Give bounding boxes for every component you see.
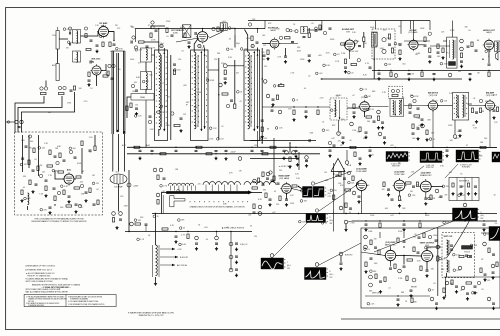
svg-text:.02: .02 bbox=[433, 283, 436, 285]
tube V8 quadrature bbox=[360, 102, 370, 112]
ground g60 bbox=[459, 134, 461, 136]
test point M20 bbox=[448, 73, 452, 77]
T8 coil 1 bbox=[456, 95, 457, 117]
bar arrow left bbox=[167, 191, 169, 193]
svg-text:.05: .05 bbox=[226, 227, 229, 229]
tube V10 AGC bbox=[64, 174, 74, 184]
ground g9 bbox=[267, 57, 269, 59]
wire riser 3 bbox=[234, 60, 236, 104]
wire vol bbox=[373, 47, 375, 79]
test point M13 bbox=[295, 30, 298, 33]
ground g56 bbox=[399, 57, 401, 59]
capacitor C45 bbox=[353, 111, 356, 113]
svg-text:270: 270 bbox=[117, 28, 120, 30]
resistor R30 bbox=[341, 43, 346, 45]
test point M45 bbox=[435, 189, 439, 193]
IF transformer T2 shield bbox=[191, 50, 209, 141]
wire ratio c bbox=[469, 105, 486, 107]
capacitor C121 bbox=[18, 126, 21, 128]
waveform photo E1 bbox=[489, 227, 500, 241]
dot j2 bbox=[218, 94, 219, 95]
T1 slug top arrow bbox=[163, 52, 165, 54]
capacitor C21 bbox=[171, 34, 174, 36]
svg-text:5%: 5% bbox=[495, 223, 498, 225]
wire t7 top bbox=[452, 21, 454, 38]
T3 slug top arrows bbox=[253, 51, 255, 53]
contrast pot bbox=[373, 32, 377, 46]
circle B+ tag bbox=[127, 183, 131, 187]
wire tuner drop a bbox=[57, 49, 59, 64]
resistor R28 bbox=[308, 33, 310, 38]
T3 slug arrow 2 bbox=[256, 126, 258, 129]
wire vert box drop bbox=[390, 261, 392, 267]
svg-text:.047: .047 bbox=[370, 155, 374, 157]
wire t4b bbox=[245, 30, 248, 48]
svg-text:.047: .047 bbox=[236, 73, 240, 75]
wire m44 link bbox=[348, 221, 352, 222]
ground g52 bbox=[443, 296, 445, 298]
vert section box bbox=[361, 228, 500, 308]
svg-text:.001: .001 bbox=[56, 170, 60, 172]
wire crt top bbox=[155, 214, 157, 246]
ground g2 bbox=[88, 83, 90, 85]
wire step 2 bbox=[18, 96, 62, 133]
test point M22 bbox=[413, 99, 416, 102]
resistor R41b bbox=[460, 53, 462, 58]
svg-text:.05: .05 bbox=[481, 289, 484, 291]
svg-text:.01: .01 bbox=[200, 47, 203, 49]
bus extra parts2 bbox=[261, 149, 264, 151]
capacitor C77 bbox=[235, 242, 238, 244]
wire riser 2 bbox=[218, 58, 220, 140]
quad coil 2 bbox=[335, 100, 336, 117]
wire v4 plate bbox=[203, 45, 205, 48]
T3 coil bbox=[248, 52, 250, 129]
wire S2 diag bbox=[319, 243, 361, 265]
wire conv 2 bbox=[151, 26, 165, 29]
resistor R82 bbox=[292, 185, 297, 187]
resistor R22 bbox=[166, 28, 168, 33]
svg-text:.005: .005 bbox=[384, 208, 388, 210]
capacitor C6 bbox=[88, 79, 91, 81]
waveform photo B1b bbox=[313, 187, 324, 198]
test point M11 bbox=[279, 36, 282, 39]
wire b+ top line bbox=[248, 20, 430, 22]
svg-text:6AQ5: 6AQ5 bbox=[486, 31, 492, 34]
yoke parts row bbox=[459, 255, 464, 257]
capacitor C98 bbox=[389, 267, 392, 269]
svg-text:MIX-OSC: MIX-OSC bbox=[92, 59, 101, 61]
vert extra wire bbox=[403, 232, 405, 238]
small cluster circle a bbox=[285, 151, 289, 155]
dot j1 bbox=[113, 40, 114, 41]
W1 scale marks bbox=[409, 152, 411, 154]
svg-text:330: 330 bbox=[149, 75, 152, 77]
ground g33 bbox=[175, 240, 177, 242]
circle pot P1 bbox=[382, 38, 386, 42]
S1 test circle bbox=[270, 254, 274, 258]
svg-text:470K: 470K bbox=[165, 125, 170, 127]
capacitor C13 bbox=[139, 149, 142, 151]
terminal circle t1 bbox=[15, 120, 18, 123]
ground g42 bbox=[399, 204, 401, 206]
wire vo c bbox=[404, 255, 422, 258]
test point M41 bbox=[269, 171, 272, 174]
resistor R20 bbox=[139, 41, 145, 43]
capacitor C81 bbox=[269, 198, 272, 200]
capacitor C57 bbox=[369, 149, 372, 151]
resistor R64 bbox=[63, 190, 65, 195]
resistor R114 bbox=[354, 152, 356, 157]
svg-text:AFC PULSE: AFC PULSE bbox=[177, 264, 188, 267]
circle M32 bbox=[159, 168, 163, 172]
tube V16 AF AMP bbox=[409, 40, 418, 49]
resistor R95 bbox=[378, 250, 380, 255]
T1 dots right bbox=[166, 57, 167, 58]
test point M52 bbox=[487, 297, 491, 301]
svg-text:.02: .02 bbox=[308, 75, 311, 77]
svg-text:560: 560 bbox=[450, 140, 453, 142]
ground g26 bbox=[369, 154, 371, 156]
svg-text:330: 330 bbox=[431, 268, 434, 270]
wire quad b bbox=[364, 111, 366, 117]
tube V1 RF AMP 6BC5 bbox=[99, 27, 109, 37]
wire takeoff 1 bbox=[250, 140, 316, 142]
waveform photo W1 bbox=[386, 152, 408, 162]
svg-text:.005: .005 bbox=[390, 145, 394, 147]
svg-text:1M: 1M bbox=[410, 191, 413, 193]
svg-text:470K: 470K bbox=[398, 231, 403, 233]
CRT socket coil bbox=[156, 245, 158, 276]
capacitor C96 bbox=[370, 257, 373, 259]
transformer box T5 bbox=[301, 27, 308, 34]
capacitor C34 bbox=[388, 43, 391, 45]
resistor R78 bbox=[262, 172, 264, 177]
circle M58 bbox=[305, 156, 309, 160]
T8 slug bbox=[458, 95, 460, 117]
wire sync h bbox=[431, 186, 443, 188]
wire crt link bbox=[128, 213, 130, 215]
svg-text:2W: 2W bbox=[115, 25, 118, 27]
capacitor C80 bbox=[277, 182, 280, 184]
svg-text:33: 33 bbox=[250, 226, 252, 228]
svg-text:220: 220 bbox=[386, 38, 389, 40]
capacitor C116 bbox=[359, 157, 362, 159]
S1 scale marks bbox=[284, 259, 286, 261]
ground g57 bbox=[442, 56, 444, 58]
resistor R69 bbox=[94, 146, 96, 151]
svg-text:.05: .05 bbox=[488, 51, 491, 53]
svg-text:.01: .01 bbox=[475, 292, 478, 294]
svg-text:+140V: +140V bbox=[133, 186, 139, 188]
svg-text:.047: .047 bbox=[461, 195, 465, 197]
test point M49 bbox=[483, 242, 487, 246]
T3 slug line 1 bbox=[253, 52, 255, 129]
test point M56 bbox=[345, 161, 349, 165]
ground g25 bbox=[329, 154, 331, 156]
fine tuning capacitor pair b bbox=[58, 86, 61, 89]
wire sound row link bbox=[279, 43, 298, 45]
svg-text:100K: 100K bbox=[297, 50, 302, 52]
wire takeoff riser a bbox=[273, 138, 275, 183]
svg-text:OTHERWISE SPECIFIED.: OTHERWISE SPECIFIED. bbox=[28, 305, 45, 307]
capacitor C25 bbox=[256, 41, 259, 43]
svg-text:.01: .01 bbox=[388, 287, 391, 289]
svg-text:(60~): (60~) bbox=[330, 274, 334, 276]
wire s2 bbox=[285, 48, 287, 56]
wire bus drop v5 bbox=[257, 29, 259, 33]
svg-text:470K: 470K bbox=[210, 80, 215, 82]
ground g24 bbox=[493, 116, 495, 118]
svg-text:220: 220 bbox=[434, 101, 437, 103]
capacitor C9 bbox=[173, 63, 176, 65]
svg-text:220: 220 bbox=[338, 140, 341, 142]
svg-text:3 (60~) 1V: 3 (60~) 1V bbox=[240, 244, 248, 246]
svg-text:10pf: 10pf bbox=[160, 43, 164, 45]
resistor R8 bbox=[41, 92, 47, 94]
capacitor C50 bbox=[417, 107, 420, 109]
svg-text:2W: 2W bbox=[183, 114, 186, 116]
svg-text:270K: 270K bbox=[67, 103, 72, 105]
circle M35 bbox=[130, 222, 134, 226]
svg-text:150: 150 bbox=[254, 145, 257, 147]
svg-text:RECEIVER MAKES IT POSSIBLE TO: RECEIVER MAKES IT POSSIBLE TO BRING YOU … bbox=[31, 220, 87, 223]
svg-text:1M: 1M bbox=[324, 172, 327, 174]
resistor R3 bbox=[102, 42, 104, 47]
test point M30 bbox=[119, 212, 123, 216]
svg-text:1M: 1M bbox=[368, 96, 371, 98]
svg-text:★ WAVEFORMS OBTAINED WITH WIDE: ★ WAVEFORMS OBTAINED WITH WIDE BAND SCOP… bbox=[128, 312, 175, 315]
ground g44 bbox=[365, 228, 367, 230]
svg-text:.05: .05 bbox=[22, 187, 25, 189]
resistor R65 bbox=[74, 187, 80, 189]
resistor R27 bbox=[267, 50, 269, 55]
wire v11 k bbox=[286, 193, 288, 199]
svg-text:PHASE DET: PHASE DET bbox=[420, 174, 433, 177]
svg-text:2W: 2W bbox=[39, 165, 42, 167]
resistor R25 bbox=[251, 36, 253, 41]
capacitor C28 bbox=[303, 36, 306, 38]
ground g63 bbox=[261, 135, 263, 137]
capacitor C67 bbox=[89, 149, 92, 151]
parts below grid boxes bbox=[131, 84, 134, 87]
svg-text:2W: 2W bbox=[374, 239, 377, 241]
wire quad link bbox=[369, 106, 388, 108]
svg-text:72Ω: 72Ω bbox=[52, 35, 56, 37]
test point M21 bbox=[350, 122, 354, 126]
test point M4 bbox=[171, 112, 174, 115]
T2 id circle bbox=[198, 44, 201, 47]
wire if c bbox=[127, 97, 131, 118]
capacitor C15 bbox=[215, 150, 218, 152]
vert extra parts2 bbox=[466, 282, 472, 284]
wire vo d bbox=[426, 262, 428, 271]
test point M54 bbox=[323, 31, 326, 34]
capacitor C55 bbox=[493, 109, 496, 111]
wire t4 bbox=[234, 35, 236, 48]
wire disc drop bbox=[349, 50, 351, 59]
lower rule line bbox=[341, 318, 500, 320]
wire switch down bbox=[162, 192, 167, 213]
switch contact dots bbox=[190, 201, 191, 202]
resistor R13 bbox=[174, 124, 180, 126]
capacitor C60 bbox=[21, 157, 24, 159]
svg-text:.001: .001 bbox=[74, 59, 78, 61]
waveform photo B1a bbox=[303, 187, 313, 198]
wire vo a bbox=[396, 255, 404, 257]
svg-text:AGC: AGC bbox=[67, 169, 72, 172]
capacitor C78 bbox=[235, 255, 238, 257]
svg-text:33: 33 bbox=[216, 244, 218, 246]
resistor R102 bbox=[420, 266, 422, 271]
resistor yoke R104 bbox=[437, 256, 439, 261]
wire quad out bbox=[346, 150, 348, 160]
ground g13 bbox=[429, 60, 431, 62]
wire tp column bbox=[230, 232, 232, 271]
svg-text:330: 330 bbox=[458, 71, 461, 73]
capacitor C110 bbox=[271, 109, 274, 111]
svg-text:220: 220 bbox=[264, 66, 267, 68]
ground g65 bbox=[359, 162, 361, 164]
ground g46 bbox=[483, 228, 485, 230]
sync cluster cap 1 bbox=[343, 177, 346, 179]
wire crt neck 3 bbox=[123, 134, 125, 172]
CRT pin arrow 1 bbox=[160, 248, 175, 250]
wire box vert 2 bbox=[28, 135, 30, 168]
audio chain circles bbox=[460, 39, 464, 43]
ground g61 bbox=[293, 118, 295, 120]
T2 coil bbox=[194, 52, 196, 129]
video det triangle bbox=[331, 159, 345, 172]
svg-text:.001: .001 bbox=[115, 172, 119, 174]
channel coil bank 1 bbox=[169, 183, 194, 186]
resistor R18 bbox=[196, 146, 202, 148]
svg-text:2W: 2W bbox=[239, 170, 242, 172]
svg-text:.001: .001 bbox=[455, 138, 459, 140]
svg-text:7: 7 bbox=[287, 262, 288, 264]
svg-text:MAX. ALLOWANCE IN ADJUSTMENT A: MAX. ALLOWANCE IN ADJUSTMENT AT FULL BRI… bbox=[26, 290, 69, 293]
capacitor C71 bbox=[262, 183, 265, 185]
antenna terminal block 1 bbox=[56, 31, 59, 50]
capacitor C63 bbox=[45, 179, 48, 181]
agc extra parts3 bbox=[49, 206, 52, 208]
wire v7 cathode bbox=[488, 50, 490, 63]
svg-text:220: 220 bbox=[264, 138, 267, 140]
ground g27 bbox=[446, 154, 448, 156]
yoke circle bbox=[458, 266, 462, 270]
ground g47 bbox=[365, 270, 367, 272]
svg-text:2.2M: 2.2M bbox=[341, 53, 346, 55]
W2 scale marks bbox=[443, 152, 445, 154]
wire v12 drop bbox=[399, 191, 401, 196]
capacitor C14 bbox=[175, 149, 178, 151]
ground g4 bbox=[224, 81, 226, 83]
capacitor C72 bbox=[271, 179, 274, 181]
wire audio drop2 bbox=[400, 21, 402, 34]
capacitor C108 bbox=[397, 298, 400, 300]
channel coil bank 3 bbox=[244, 182, 276, 185]
yoke capacitor C103 bbox=[450, 244, 453, 246]
wire t8 link bbox=[468, 103, 473, 105]
ground g38 bbox=[269, 203, 271, 205]
wire v15 plate bbox=[427, 247, 441, 251]
test point M44 bbox=[344, 220, 348, 224]
wire if link1 bbox=[152, 54, 155, 56]
resistor R93 bbox=[419, 223, 421, 228]
quadrature dashed box bbox=[330, 98, 347, 120]
resistor R72 bbox=[157, 200, 159, 205]
mixer input cluster cap bbox=[89, 61, 91, 64]
capacitor C100 bbox=[417, 251, 420, 253]
svg-text:220: 220 bbox=[198, 183, 201, 185]
svg-text:1: 1 bbox=[328, 190, 329, 192]
svg-text:33: 33 bbox=[183, 228, 185, 230]
ground g10 bbox=[308, 59, 310, 61]
capacitor C27 bbox=[263, 54, 266, 56]
volume pot bbox=[372, 33, 378, 48]
S2 scale marks bbox=[327, 268, 329, 270]
svg-text:2W: 2W bbox=[320, 190, 323, 192]
resistor R96 bbox=[365, 262, 367, 267]
resistor R87 bbox=[383, 182, 385, 187]
test point M16 bbox=[357, 59, 360, 62]
capacitor C53 bbox=[475, 111, 478, 113]
sync cluster res 1 bbox=[339, 172, 341, 177]
svg-text:AGC: AGC bbox=[146, 144, 151, 147]
svg-text:220: 220 bbox=[276, 204, 279, 206]
resistor R1 bbox=[85, 34, 87, 38]
svg-text:.005: .005 bbox=[41, 148, 45, 150]
IF B+ bus top bbox=[135, 28, 265, 30]
svg-text:5%: 5% bbox=[446, 53, 449, 55]
wire agc d bbox=[94, 135, 96, 146]
svg-text:.005: .005 bbox=[318, 55, 322, 57]
capacitor C106 bbox=[435, 302, 438, 304]
agc extra parts bbox=[32, 169, 35, 171]
dot j5 bbox=[395, 147, 396, 148]
resistor R40 bbox=[442, 48, 444, 53]
svg-text:.005: .005 bbox=[326, 130, 330, 132]
vert extra parts3 bbox=[418, 236, 421, 238]
svg-text:ION TRAP: ION TRAP bbox=[114, 186, 123, 189]
capacitor C113 bbox=[315, 29, 318, 31]
ground g43 bbox=[425, 202, 427, 204]
svg-text:560: 560 bbox=[402, 63, 405, 65]
capacitor C1 bbox=[69, 32, 71, 35]
circle M33 bbox=[156, 193, 160, 197]
T2 slug top arrows bbox=[201, 51, 203, 53]
test point M19 bbox=[394, 74, 398, 78]
wire video det bbox=[257, 131, 259, 147]
capacitor C74 bbox=[175, 235, 178, 237]
svg-text:100K: 100K bbox=[379, 48, 384, 50]
svg-text:▲ 4.5 MC TRAP: ▲ 4.5 MC TRAP bbox=[278, 165, 292, 168]
speaker text blob bbox=[449, 62, 456, 66]
svg-text:CHANNEL SELECTOR SWITCH SHOWN: CHANNEL SELECTOR SWITCH SHOWN IN CHANNEL… bbox=[189, 206, 245, 209]
svg-text:.001: .001 bbox=[204, 227, 208, 229]
tube V3 2ND VIDEO IF bbox=[223, 64, 227, 68]
svg-text:.05: .05 bbox=[438, 197, 441, 199]
test point M48 bbox=[398, 269, 402, 273]
tube V9b sound output bbox=[485, 101, 494, 110]
capacitor C8 bbox=[70, 89, 73, 91]
wire tuner drop b bbox=[45, 81, 47, 87]
capacitor C118 bbox=[336, 174, 339, 176]
grid coil box 2 bbox=[141, 72, 152, 90]
T3 slug line 2 bbox=[257, 52, 259, 129]
svg-text:FROM PT. TO CHASSIS GND: FROM PT. TO CHASSIS GND bbox=[28, 274, 52, 277]
wire box vert 1 bbox=[22, 135, 24, 172]
